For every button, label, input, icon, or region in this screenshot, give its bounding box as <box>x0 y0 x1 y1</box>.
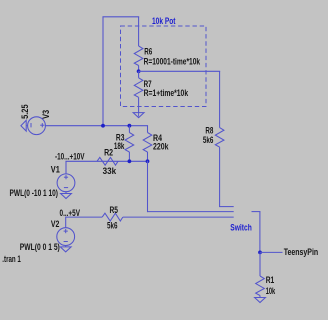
junction top loop and rail <box>101 124 105 128</box>
svg-text:R8: R8 <box>205 126 213 136</box>
svg-text:0...+5V: 0...+5V <box>60 208 81 218</box>
svg-text:PWL(0 -10 1 10): PWL(0 -10 1 10) <box>10 188 59 198</box>
resistor R5 <box>102 213 123 221</box>
svg-text:220k: 220k <box>153 141 169 151</box>
svg-text:5.25: 5.25 <box>20 104 30 119</box>
svg-text:-10...+10V: -10...+10V <box>55 152 85 162</box>
resistor R2 <box>97 157 118 165</box>
resistor R4 <box>147 126 149 133</box>
ground R1 bottom <box>255 298 266 303</box>
svg-text:10k Pot: 10k Pot <box>152 16 176 26</box>
svg-text:V2: V2 <box>51 219 60 229</box>
svg-text:V3: V3 <box>41 110 51 119</box>
voltage source V2 <box>57 228 75 246</box>
svg-text:5k6: 5k6 <box>203 135 214 145</box>
junction R6-R7 wiper node <box>137 69 141 73</box>
svg-text:R5: R5 <box>110 205 119 215</box>
wire wiper node to R8 top <box>139 70 221 72</box>
resistor R8 <box>215 128 224 148</box>
ground V3 negative <box>21 120 26 131</box>
junction R3 bottom <box>127 159 131 163</box>
svg-text:TeensyPin: TeensyPin <box>284 247 319 257</box>
svg-text:R=1+time*10k: R=1+time*10k <box>144 88 189 98</box>
svg-text:R6: R6 <box>144 47 152 57</box>
resistor R3 <box>128 126 130 133</box>
wire divider node to switch middle contact <box>147 161 149 212</box>
svg-text:5k6: 5k6 <box>107 220 118 230</box>
ground V2 negative <box>65 246 67 247</box>
svg-text:.tran 1: .tran 1 <box>2 254 21 264</box>
svg-text:R2: R2 <box>104 148 113 158</box>
voltage source V1 <box>57 174 75 192</box>
wire switch pole <box>252 211 261 213</box>
svg-text:V1: V1 <box>51 164 60 174</box>
ground pot bottom <box>133 113 144 118</box>
resistor R6 <box>134 46 143 66</box>
resistor R7 <box>138 71 140 78</box>
svg-text:Switch: Switch <box>230 223 252 233</box>
ground V1 negative <box>65 192 67 194</box>
wire V1 top to R2 <box>65 161 67 174</box>
svg-text:10k: 10k <box>266 286 276 296</box>
resistor R1 <box>259 252 261 276</box>
svg-text:PWL(0 0 1 5): PWL(0 0 1 5) <box>20 242 60 252</box>
10k Pot dashed enclosure <box>121 26 207 107</box>
svg-text:18k: 18k <box>114 141 125 151</box>
wire R8 to switch top contact <box>219 206 234 208</box>
wire TeensyPin stub <box>260 251 283 253</box>
junction TeensyPin node <box>258 251 262 255</box>
svg-text:R=10001-time*10k: R=10001-time*10k <box>144 56 201 66</box>
svg-text:R1: R1 <box>266 275 275 285</box>
wire bottom rail <box>65 160 148 162</box>
voltage source V3 <box>28 117 46 135</box>
wire R5 to switch bottom contact <box>123 216 234 218</box>
junction R3 top <box>127 124 131 128</box>
wire V2 top to R5 <box>65 217 67 228</box>
wire V3 output rail <box>45 125 148 127</box>
junction R4 bottom switch feed <box>146 159 150 163</box>
wire top loop from V3 node up and over to R6 <box>102 17 104 126</box>
svg-text:33k: 33k <box>103 166 117 176</box>
